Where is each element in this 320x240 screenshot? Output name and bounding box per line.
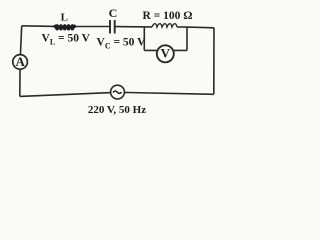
svg-text:220 V, 50 Hz: 220 V, 50 Hz (88, 104, 146, 116)
svg-text:L: L (61, 12, 68, 24)
svg-text:A: A (16, 54, 26, 69)
svg-text:V: V (161, 45, 171, 60)
svg-text:VC = 50 V: VC = 50 V (97, 37, 147, 51)
svg-text:R = 100 Ω: R = 100 Ω (143, 10, 193, 22)
svg-text:C: C (109, 6, 118, 20)
svg-text:VL = 50 V: VL = 50 V (42, 33, 91, 47)
